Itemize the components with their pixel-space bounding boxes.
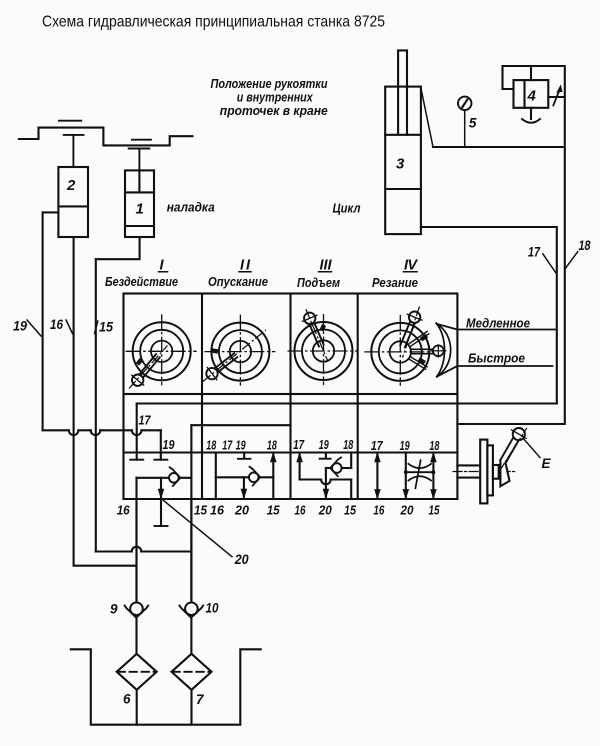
svg-text:16: 16 xyxy=(117,503,131,518)
svg-text:III: III xyxy=(320,258,333,274)
svg-text:Схема гидравлическая принципиа: Схема гидравлическая принципиальная стан… xyxy=(42,14,385,31)
svg-text:Быстрое: Быстрое xyxy=(468,351,525,366)
svg-text:1: 1 xyxy=(136,201,144,218)
svg-text:15: 15 xyxy=(429,503,441,518)
svg-text:16: 16 xyxy=(210,503,225,518)
svg-text:19: 19 xyxy=(13,319,27,334)
svg-text:18: 18 xyxy=(429,438,440,453)
svg-text:19: 19 xyxy=(163,437,176,452)
svg-text:15: 15 xyxy=(267,503,281,518)
svg-text:20: 20 xyxy=(234,552,249,567)
svg-text:проточек в кране: проточек в кране xyxy=(220,103,328,118)
svg-text:17: 17 xyxy=(371,438,384,453)
svg-text:18: 18 xyxy=(343,437,354,452)
svg-text:IV: IV xyxy=(404,258,418,274)
svg-text:9: 9 xyxy=(110,602,118,617)
svg-text:20: 20 xyxy=(234,503,250,518)
svg-text:18: 18 xyxy=(206,438,217,453)
svg-text:17: 17 xyxy=(293,437,305,452)
svg-text:20: 20 xyxy=(318,503,333,518)
svg-text:20: 20 xyxy=(400,503,415,518)
svg-text:наладка: наладка xyxy=(167,200,215,215)
svg-text:15: 15 xyxy=(99,320,113,335)
svg-text:16: 16 xyxy=(373,503,385,518)
svg-text:Подъем: Подъем xyxy=(297,275,340,290)
svg-text:2: 2 xyxy=(66,177,76,194)
svg-text:3: 3 xyxy=(396,156,405,173)
svg-text:18: 18 xyxy=(267,438,278,453)
svg-text:4: 4 xyxy=(527,88,537,105)
svg-text:17: 17 xyxy=(528,245,541,260)
svg-text:Опускание: Опускание xyxy=(208,274,268,289)
svg-text:19: 19 xyxy=(400,438,411,453)
svg-text:19: 19 xyxy=(236,438,247,453)
svg-text:17: 17 xyxy=(222,438,233,453)
svg-text:15: 15 xyxy=(344,503,357,518)
svg-text:II: II xyxy=(240,258,251,274)
svg-text:Е: Е xyxy=(542,456,552,471)
svg-text:16: 16 xyxy=(50,317,63,332)
svg-text:16: 16 xyxy=(295,503,307,518)
svg-text:6: 6 xyxy=(123,692,131,707)
svg-text:15: 15 xyxy=(194,503,208,518)
svg-text:17: 17 xyxy=(139,413,152,428)
svg-text:Бездействие: Бездействие xyxy=(105,274,178,289)
svg-text:Резание: Резание xyxy=(372,275,418,290)
svg-text:Цикл: Цикл xyxy=(333,201,361,216)
svg-text:5: 5 xyxy=(469,116,477,131)
svg-text:Медленное: Медленное xyxy=(466,316,530,331)
svg-text:10: 10 xyxy=(206,601,219,616)
svg-text:19: 19 xyxy=(319,437,330,452)
svg-text:18: 18 xyxy=(579,238,591,253)
